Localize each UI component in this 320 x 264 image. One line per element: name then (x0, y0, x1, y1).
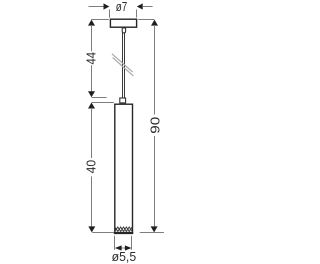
dimension ø5,5 extension line left (114, 236, 116, 250)
dimension ø5,5 extension line right (131, 236, 133, 250)
wire connector block (120, 98, 126, 103)
diffuser zigzag stroke B (115, 227, 132, 231)
dimension 40 arrow down (88, 226, 95, 232)
dimension 90 line upper segment (154, 25, 156, 115)
dimension ø7 line right tail (143, 6, 153, 8)
dimension 40 top extension line (92, 102, 114, 104)
dimension 40 line lower segment (91, 176, 93, 227)
dimension ø5,5 arrow right (125, 245, 132, 250)
tube bottom edge (thick) (114, 232, 133, 234)
dimension 90 arrow up (151, 20, 158, 26)
dimension 90 bottom extension line (140, 232, 164, 234)
dimension ø5,5 arrow left (115, 245, 122, 250)
dimension 90 top extension line (138, 19, 154, 21)
canopy stem (122, 28, 125, 33)
dimension 40 arrow up (88, 103, 95, 109)
cable break mark lower stroke (113, 58, 134, 76)
svg-text:90: 90 (147, 117, 162, 134)
dimension 44 line lower segment (91, 65, 93, 92)
canopy (ceiling cup) (110, 19, 136, 27)
dimension 44 bottom extension line (92, 97, 107, 99)
svg-text:ø7: ø7 (116, 0, 128, 14)
dimension 44 arrow up (88, 20, 95, 26)
cable break mark upper stroke (112, 54, 133, 72)
dimension 90 line lower segment (154, 136, 156, 227)
svg-text:ø5,5: ø5,5 (112, 249, 137, 264)
suspension wire left line (122, 33, 124, 98)
diffuser zigzag stroke A (115, 227, 132, 231)
dimension 44 arrow down (88, 91, 95, 97)
dimension 90 arrow down (151, 226, 158, 232)
dimension 44 top extension line (91, 19, 109, 21)
dimension 40 bottom extension line (92, 232, 114, 234)
svg-text:44: 44 (84, 52, 99, 64)
dimension ø7 arrow left (104, 3, 110, 9)
dimension ø5,5 line middle (121, 247, 127, 249)
tube body (115, 104, 133, 233)
extension line canopy right corner (136, 10, 138, 18)
dimension ø7 arrow right (137, 3, 143, 9)
dimension ø7 line left tail (89, 6, 105, 8)
dimension 40 line upper segment (91, 108, 93, 158)
dimension 44 line upper segment (91, 25, 93, 51)
extension line canopy left corner (109, 10, 111, 18)
suspension wire right line (124, 33, 126, 98)
svg-text:40: 40 (84, 160, 99, 174)
